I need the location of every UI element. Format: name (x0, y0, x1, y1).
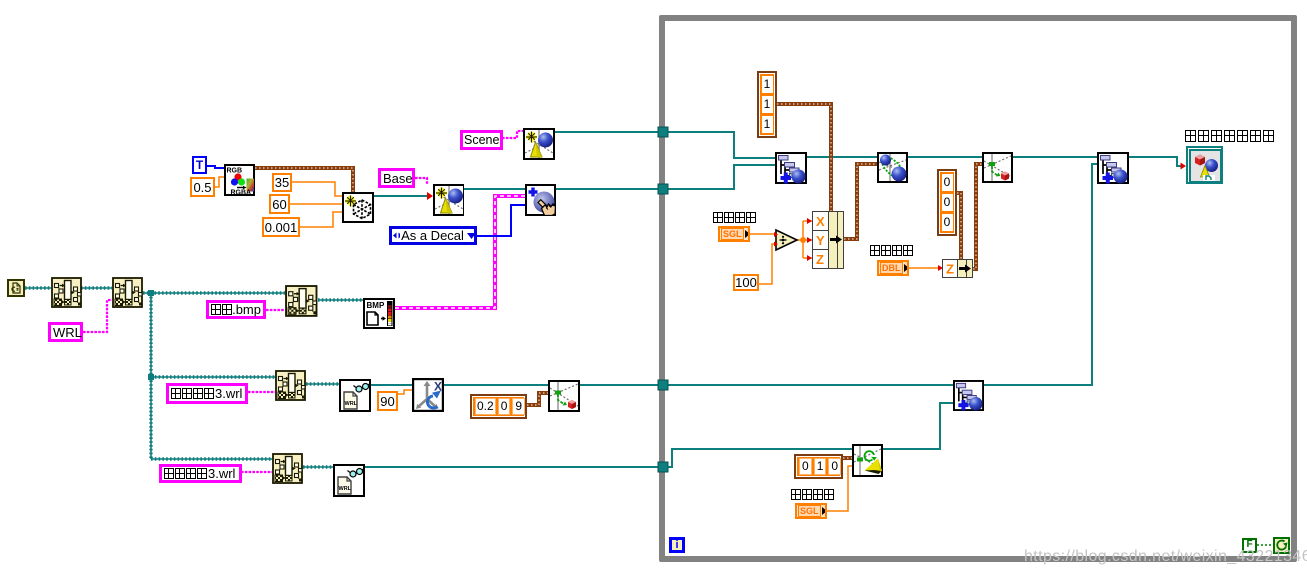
scale object icon (877, 152, 908, 183)
wire: translate to add-object2 (1013, 156, 1097, 158)
wire: tunnel5 to rotate3 (668, 449, 852, 467)
components layer (0, 0, 1, 1)
wire: orange 90 to rotate-axis (398, 390, 412, 394)
path constant (Current VI path) (7, 279, 25, 297)
rotate around axis icon (412, 378, 444, 412)
bundle XYZ node (812, 211, 844, 269)
apply texture icon (525, 184, 556, 216)
iteration terminal i (669, 537, 685, 553)
svg-text:Z: Z (816, 252, 824, 267)
wire: rotate3 to add-object3 (883, 403, 953, 449)
numeric constant 60 (269, 194, 290, 214)
numeric constant 0.5 (190, 177, 215, 197)
wire: string Base label to create (415, 178, 427, 184)
match pattern icon 5 (272, 453, 303, 484)
wire: orange SGL2 to rotate3 (827, 466, 852, 511)
loop condition terminal (1273, 537, 1290, 554)
wire: add-object1 to scale (807, 156, 877, 158)
translate object icon (in loop) (982, 152, 1013, 183)
string label 旋转机构3.wrl (159, 464, 242, 483)
svg-text:Y: Y (816, 233, 825, 248)
wire: orange 60 to star-box (290, 203, 342, 205)
wire: orange divide out to bundle XYZ (796, 221, 812, 258)
SGL control (旋转机构) (795, 503, 827, 519)
create object icon (Scene) (523, 128, 555, 160)
add object to scene icon 3 (953, 380, 984, 411)
wire: cluster 010 to rotate3 (brown) (843, 456, 852, 460)
wire: orange 100 to divide (759, 244, 776, 284)
svg-text:RGB: RGB (227, 168, 243, 175)
wire: string WRL label to match2 (83, 300, 112, 332)
WRL read icon 2 (333, 464, 365, 497)
wire: blue ring to texture (477, 205, 525, 236)
svg-text:RGBA: RGBA (231, 190, 252, 197)
label 港口单臂起重机 (1185, 130, 1276, 144)
match pattern icon 3 (285, 285, 318, 317)
DBL control (上下移动) (877, 260, 909, 276)
string label Base (378, 168, 415, 188)
wire: branch to match5 (path wire) (151, 457, 272, 460)
BMP read icon (363, 298, 395, 329)
3D picture control terminal (1186, 146, 1223, 184)
wire: image data BMP to texture (395, 196, 525, 308)
string label 轨道.bmp (206, 300, 266, 319)
wire: cluster 0.2 0 9 to translate2 (brown) (527, 393, 548, 405)
numeric constant 90 (377, 391, 398, 411)
wire: string label to match5 (241, 471, 272, 473)
boolean constant F (1242, 538, 1257, 553)
wire: scale to translate (908, 156, 982, 158)
divide function (774, 228, 799, 252)
wire: match4 to WRL read1 (path wire) (306, 382, 339, 385)
while loop frame (659, 15, 1297, 562)
wire: boolean F to loop condition (green dotted) (1257, 544, 1274, 546)
wire: match3 to BMP read (path wire) (318, 298, 363, 301)
SGL control (模型缩放) (718, 226, 750, 242)
watermark (1024, 547, 1307, 566)
wire: vertical path branch (149, 293, 152, 459)
cluster constant 0.2 0 9 (470, 394, 527, 419)
svg-text:Z: Z (946, 262, 954, 277)
add object to scene icon 2 (1097, 152, 1129, 184)
match pattern icon 4 (275, 370, 306, 401)
wire: teal texture to tunnel2 (556, 188, 662, 190)
ring constant As a Decal (389, 226, 477, 245)
array constant 0 0 0 (937, 169, 957, 236)
numeric constant 100 (733, 274, 759, 291)
wire: tunnel4 to add-object3 (668, 384, 953, 386)
red coercion arrow at terminal (1181, 163, 1187, 170)
wire: orange 0.5 to RGBA (215, 177, 224, 187)
wire: teal scene create to tunnel1 (555, 131, 662, 133)
svg-text:BMP: BMP (367, 301, 385, 310)
wire: orange DBL to Z bundle (909, 267, 942, 269)
wire: cluster 000 array to Z bundle (brown) (957, 193, 961, 259)
numeric constant 0.001 (262, 217, 300, 237)
wire: teal base create to texture (464, 188, 525, 190)
tunnel 5 (658, 462, 668, 472)
tunnel 2 (658, 184, 668, 194)
wire: orange 0.001 to star-box (300, 212, 342, 227)
WRL read icon 1 (339, 379, 371, 412)
wire: blue T to RGBA (207, 166, 224, 168)
numeric constant 35 (272, 173, 292, 192)
wire: tunnel2 to add-object1 (668, 165, 775, 189)
string label 行走机构3.wrl (166, 383, 248, 404)
boolean constant T (192, 156, 207, 174)
junction dot path wires (148, 290, 154, 296)
wire: branch to match4 (path wire) (151, 375, 275, 378)
string label Scene (460, 130, 503, 150)
wire: cluster bundle to scale (brown) (844, 164, 877, 239)
wire: string label to match4 (248, 391, 275, 393)
RGB to RGBA icon (224, 164, 255, 196)
wire: cluster Z bundle to translate (brown) (973, 164, 982, 269)
tunnel 1 (658, 127, 668, 137)
red arrows at bundle inputs (807, 218, 812, 261)
create box icon (star + wireframe box) (342, 192, 374, 223)
wire: orange SGL1 to divide (750, 233, 776, 235)
wire: match1 to match2 (path wire) (81, 286, 112, 289)
wire: string Scene label to create (502, 131, 523, 138)
shared defs (0, 0, 1, 1)
label 上下移动 (870, 245, 914, 258)
translate object icon (row2) (548, 380, 580, 412)
label 旋转机构 (791, 489, 835, 502)
add object to scene icon 1 (775, 152, 807, 184)
wire: WRL2 to tunnel5 (365, 466, 662, 468)
wire: orange 35 to star-box (292, 182, 342, 196)
create object icon (Base) (433, 184, 464, 216)
array constant 1 1 1 (757, 71, 777, 138)
rotate object icon (in loop) (852, 444, 883, 477)
wire: teal star-box to base create (374, 195, 431, 197)
tunnel 4 (658, 380, 668, 390)
label 模型缩放 (713, 212, 757, 225)
wire: WRL1 through transforms to tunnel4 (371, 384, 662, 386)
wire: cluster 111 array to bundle (brown) (777, 104, 831, 211)
bundle Z node (942, 259, 973, 278)
svg-text:X: X (816, 214, 825, 229)
wire: match5 to WRL read2 (path wire) (303, 465, 333, 468)
wire: add-object3 up to add-object2 (983, 164, 1097, 385)
wire: string label to match3 (266, 309, 285, 311)
match pattern icon 2 (112, 277, 143, 308)
wire: match2 to match3 (path wire) (143, 291, 285, 294)
wire: cluster RGBA to star-box (brown) (255, 168, 353, 192)
wire: add-object2 to 3D terminal (1129, 157, 1184, 166)
wire: path const to match1 (path wire) (25, 286, 51, 289)
match pattern icon 1 (51, 277, 82, 308)
red coercion arrow at base create input (427, 192, 433, 200)
wire: tunnel1 to add-object1 (668, 132, 775, 158)
cluster constant 0 1 0 (794, 454, 843, 479)
WRL string label (48, 322, 83, 342)
